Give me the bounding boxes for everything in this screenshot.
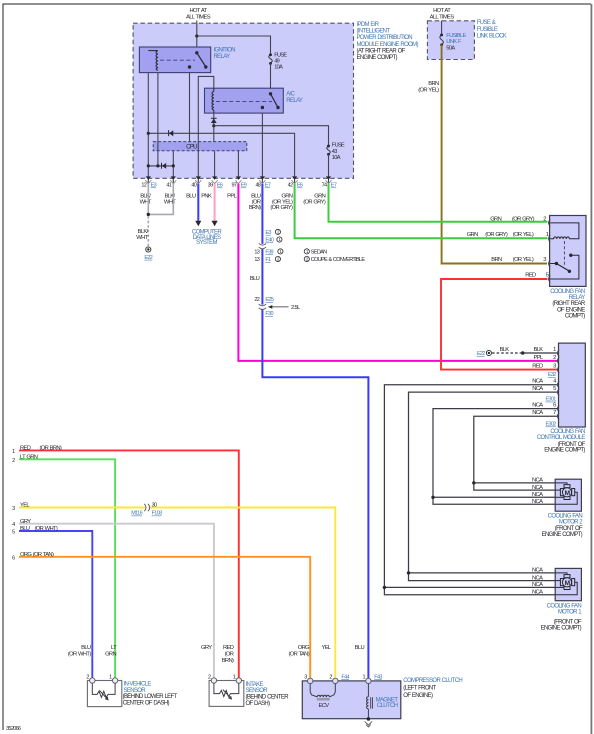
svg-text:OF DASH): OF DASH) <box>246 701 271 707</box>
compressor clutch pin bumps <box>308 678 313 683</box>
ignition relay coil <box>148 50 158 52</box>
svg-text:FUSIBLE: FUSIBLE <box>446 33 466 39</box>
wire A/C coil lead down to CPU <box>213 113 215 142</box>
svg-text:PPL: PPL <box>533 355 543 361</box>
cooling fan motor 2 box <box>555 479 581 511</box>
ECV solenoid <box>310 684 335 697</box>
svg-text:NCA: NCA <box>532 379 543 385</box>
svg-text:1: 1 <box>12 449 15 455</box>
ignition relay K1 box <box>139 47 210 73</box>
connector E25/F30 on BLU wire <box>254 297 273 317</box>
wire NCA module pin 6 to motor 2 pins 3,4 <box>433 409 557 505</box>
svg-text:GRY: GRY <box>20 519 31 525</box>
intake sensor box <box>209 681 244 707</box>
svg-text:48: 48 <box>255 183 260 189</box>
svg-text:40: 40 <box>191 183 196 189</box>
compressor clutch box <box>302 681 401 719</box>
wire NCA module pin 4 to motor 1 pins 3,4 <box>384 385 557 595</box>
ignition relay dashed link <box>160 59 195 61</box>
svg-text:WHT: WHT <box>164 199 176 205</box>
motor 1 symbol M <box>560 575 574 590</box>
svg-text:FUSE &: FUSE & <box>477 20 496 26</box>
svg-text:IGNITION: IGNITION <box>214 48 236 54</box>
svg-text:NCA: NCA <box>532 403 543 409</box>
fuse 43 10A <box>327 145 330 148</box>
wire 2 LT GRN to in-vehicle sensor pin 1 <box>19 459 115 678</box>
svg-text:HOT AT: HOT AT <box>190 8 208 14</box>
svg-text:F43: F43 <box>374 674 382 680</box>
svg-text:7: 7 <box>553 410 556 416</box>
svg-text:NCA: NCA <box>532 568 543 574</box>
relay switch pins 3 and 5 <box>550 263 556 265</box>
node HOT AT ALL TIMES (left) <box>186 8 211 20</box>
svg-text:E32: E32 <box>548 372 556 378</box>
wire U-link ignition output to A/C relay coil and pin 40 <box>198 76 214 183</box>
wire CPU to pin 39 <box>214 151 216 177</box>
svg-text:POWER DISTRIBUTION: POWER DISTRIBUTION <box>357 35 413 41</box>
svg-text:BRN: BRN <box>428 81 439 87</box>
pin 97 E9 IPDM <box>231 176 246 188</box>
svg-text:(BEHIND CENTER: (BEHIND CENTER <box>246 695 290 701</box>
cooling fan motor 1 box <box>555 568 581 600</box>
svg-text:NCA: NCA <box>532 485 543 491</box>
svg-text:1: 1 <box>109 674 112 680</box>
wire fuse 49 to A/C relay common <box>270 63 272 93</box>
svg-text:ENGINE COMPT): ENGINE COMPT) <box>357 55 398 61</box>
A/C relay dashed link <box>216 100 272 102</box>
svg-text:RELAY: RELAY <box>214 54 231 60</box>
svg-text:6: 6 <box>12 555 15 561</box>
wire PPL pin 97 to module pin 2 <box>238 184 557 361</box>
svg-text:IPDM E/R: IPDM E/R <box>357 22 380 28</box>
svg-text:RELAY: RELAY <box>569 295 586 301</box>
wire BLK module pin 1 to ground E22 <box>523 352 557 354</box>
svg-text:(OR GRY): (OR GRY) <box>303 199 326 205</box>
label A/C relay <box>286 92 303 105</box>
wire BLK/WHT pin 41 down and left <box>148 184 173 215</box>
label in-vehicle sensor <box>123 682 178 707</box>
wire bottom bus <box>148 165 173 167</box>
svg-text:2.5L: 2.5L <box>291 305 301 311</box>
pin 41 IPDM <box>166 176 176 188</box>
svg-text:97: 97 <box>231 183 236 189</box>
wire GRN pin 42 to cooling fan relay pin 1 <box>295 184 548 239</box>
svg-text:4: 4 <box>553 379 557 385</box>
svg-text:(OR BRN): (OR BRN) <box>40 446 62 452</box>
node junctions bottom bus <box>147 164 150 167</box>
intake sensor thermistor <box>214 683 239 696</box>
wire colour labels above in-vehicle sensor <box>68 645 365 664</box>
svg-text:49: 49 <box>274 59 279 65</box>
svg-text:SYSTEM: SYSTEM <box>196 240 217 246</box>
svg-text:E301: E301 <box>545 397 556 403</box>
svg-text:NCA: NCA <box>532 386 543 392</box>
svg-text:COOLING FAN: COOLING FAN <box>550 429 585 435</box>
label IPDM E/R <box>357 22 419 61</box>
svg-text:COOLING FAN: COOLING FAN <box>550 289 585 295</box>
wire BRN (OR YEL) fusible link to cooling fan relay pin 3 <box>442 45 547 264</box>
pin 12 E3 IPDM <box>141 176 156 188</box>
svg-text:INTAKE: INTAKE <box>246 682 264 688</box>
svg-text:NCA: NCA <box>532 410 543 416</box>
svg-text:M116: M116 <box>131 511 142 517</box>
wire RED relay pin 5 to module pin 3 <box>441 279 557 370</box>
svg-text:(OR YEL): (OR YEL) <box>513 257 534 263</box>
wire 3 YEL to compressor clutch pin 2 <box>19 508 335 681</box>
fuse 49 10A <box>269 53 272 56</box>
svg-text:GRN: GRN <box>490 216 501 222</box>
svg-text:RED: RED <box>20 446 31 452</box>
svg-text:OF ENGINE): OF ENGINE) <box>403 693 433 699</box>
svg-text:GRN: GRN <box>467 232 478 238</box>
svg-text:PPL: PPL <box>227 194 237 200</box>
svg-text:3: 3 <box>12 506 15 512</box>
relay coil between pins 1 and 2 <box>550 223 579 239</box>
svg-text:ORG: ORG <box>298 645 310 651</box>
svg-text:2: 2 <box>543 216 546 222</box>
svg-text:43: 43 <box>332 149 337 155</box>
svg-text:ENGINE COMPT): ENGINE COMPT) <box>542 532 583 538</box>
svg-text:3: 3 <box>553 364 556 370</box>
motor 2 internal leads <box>555 483 577 504</box>
ground E22 (left) <box>146 247 151 252</box>
svg-text:BRN: BRN <box>491 257 502 263</box>
svg-text:30: 30 <box>152 502 157 508</box>
svg-text:NCA: NCA <box>532 589 543 595</box>
wire bus A to pin 42 <box>148 133 294 183</box>
svg-text:(OR GRY): (OR GRY) <box>270 205 293 211</box>
svg-text:(LEFT FRONT: (LEFT FRONT <box>403 686 436 692</box>
wire 4 GRY to intake sensor pin 2 <box>19 524 214 679</box>
svg-text:COMPRESSOR CLUTCH: COMPRESSOR CLUTCH <box>403 678 462 684</box>
svg-text:COOLING FAN: COOLING FAN <box>547 603 582 609</box>
svg-text:13: 13 <box>254 257 259 263</box>
svg-text:6: 6 <box>553 403 556 409</box>
svg-text:E40: E40 <box>265 238 273 244</box>
svg-text:1: 1 <box>233 674 236 680</box>
svg-text:ALL TIMES: ALL TIMES <box>430 15 455 21</box>
wire hot feed to ignition relay common <box>196 21 198 53</box>
svg-text:2: 2 <box>12 458 15 464</box>
svg-text:42: 42 <box>288 183 293 189</box>
svg-text:(OR: (OR <box>225 652 234 658</box>
in-vehicle sensor thermistor <box>92 683 115 697</box>
label compressor clutch <box>403 678 462 699</box>
legend sedan / coupe <box>304 249 365 263</box>
pin 39 E6 IPDM <box>208 176 223 188</box>
svg-text:F44: F44 <box>341 674 349 680</box>
wire A/C contact output to pin 48 <box>261 108 263 184</box>
svg-text:RELAY: RELAY <box>286 98 303 104</box>
CPU box <box>153 142 247 151</box>
wire NCA module pin 5 to motor 1 pins 1,2 <box>409 392 558 580</box>
intake sensor pin bumps <box>211 678 216 683</box>
label intake sensor <box>246 682 290 707</box>
svg-text:LT GRN: LT GRN <box>20 454 38 460</box>
svg-text:12: 12 <box>141 183 146 189</box>
wire GRN pin 74 to cooling fan relay pin 2 <box>329 184 548 222</box>
cooling fan control module box <box>559 343 586 427</box>
magnet clutch coil <box>367 684 369 697</box>
svg-text:A/C: A/C <box>286 92 295 98</box>
svg-text:(OR WHT): (OR WHT) <box>35 526 58 532</box>
svg-text:LINK F: LINK F <box>446 39 462 45</box>
svg-text:COMPT): COMPT) <box>565 313 585 319</box>
svg-text:E6: E6 <box>297 183 303 189</box>
svg-text:WHT: WHT <box>140 199 152 205</box>
wire BLU pin 40 to computer data lines <box>197 184 199 221</box>
svg-text:(AT RIGHT REAR OF: (AT RIGHT REAR OF <box>357 48 406 54</box>
svg-text:39: 39 <box>208 183 213 189</box>
svg-text:E25: E25 <box>265 297 273 303</box>
svg-text:BLU: BLU <box>250 276 260 282</box>
relay dashed link <box>563 241 565 265</box>
svg-text:F103: F103 <box>152 511 163 517</box>
fuse and fusible link block box <box>427 21 474 60</box>
wire fuse 43 to pin 74 <box>328 154 330 183</box>
svg-text:F30: F30 <box>265 311 273 317</box>
svg-text:E6: E6 <box>217 183 223 189</box>
svg-text:CENTER OF DASH): CENTER OF DASH) <box>123 701 170 707</box>
label cooling fan control module <box>537 429 586 454</box>
svg-text:BLK: BLK <box>499 347 509 353</box>
svg-text:RED: RED <box>223 645 234 651</box>
node junction BLK/WHT <box>147 213 150 216</box>
svg-text:(OR TAN): (OR TAN) <box>288 652 309 658</box>
svg-text:ENGINE COMPT): ENGINE COMPT) <box>544 448 585 454</box>
wire BLU (OR BRN) pin 48 to compressor clutch pin 1 <box>262 184 368 681</box>
diode D1 on A/C coil lead <box>211 119 217 123</box>
svg-text:FUSE: FUSE <box>274 53 287 59</box>
svg-text:BRN): BRN) <box>222 658 234 664</box>
motor 2 symbol M <box>560 485 574 500</box>
svg-text:1: 1 <box>362 674 365 680</box>
wire BLK/WHT pin 12 down <box>147 184 149 215</box>
svg-text:1: 1 <box>546 232 549 238</box>
wire 1 RED (OR BRN) to intake sensor pin 1 <box>19 450 239 678</box>
svg-text:HOT AT: HOT AT <box>433 8 451 14</box>
connector break E3/E40 on BLU wire <box>259 243 266 248</box>
svg-text:(OR YEL): (OR YEL) <box>513 232 534 238</box>
svg-text:BLK: BLK <box>533 347 543 353</box>
pin 74 E7 IPDM <box>322 176 337 188</box>
svg-text:E3: E3 <box>151 183 157 189</box>
label cooling fan motor 1 <box>541 603 583 631</box>
svg-text:CPU: CPU <box>186 145 197 151</box>
diode D2 on bus A <box>169 130 173 136</box>
svg-text:PNK: PNK <box>201 194 212 200</box>
svg-text:OF ENGINE: OF ENGINE <box>557 307 585 313</box>
svg-text:FUSE: FUSE <box>332 143 345 149</box>
wire 6 ORG (OR TAN) to compressor clutch pin 3 <box>19 557 310 680</box>
diode D3 on bottom bus <box>162 163 166 169</box>
in-vehicle sensor box <box>87 681 121 707</box>
module pin labels <box>499 347 557 416</box>
svg-text:(OR GRY): (OR GRY) <box>512 216 535 222</box>
svg-text:(FRONT OF: (FRONT OF <box>555 526 583 532</box>
svg-text:3: 3 <box>304 674 307 680</box>
svg-text:(RIGHT REAR: (RIGHT REAR <box>552 301 586 307</box>
svg-text:(INTELLIGENT: (INTELLIGENT <box>357 29 391 35</box>
pin 40 IPDM <box>191 176 201 188</box>
svg-text:3: 3 <box>543 257 546 263</box>
svg-text:1: 1 <box>553 347 556 353</box>
label cooling fan motor 2 <box>542 513 584 538</box>
svg-text:SENSOR: SENSOR <box>246 688 269 694</box>
svg-text:10A: 10A <box>274 65 283 71</box>
svg-text:E22: E22 <box>144 255 152 261</box>
svg-text:YEL: YEL <box>20 503 30 509</box>
svg-text:10A: 10A <box>332 155 341 161</box>
svg-text:5: 5 <box>546 273 549 279</box>
svg-text:E302: E302 <box>545 422 556 428</box>
relay pin labels <box>467 216 549 278</box>
svg-text:E22: E22 <box>477 351 485 357</box>
svg-text:2: 2 <box>208 674 211 680</box>
svg-text:CONTROL MODULE: CONTROL MODULE <box>537 435 585 441</box>
svg-text:LINK BLOCK: LINK BLOCK <box>477 33 507 39</box>
svg-text:E9: E9 <box>241 183 247 189</box>
IPDM E/R box <box>133 23 353 178</box>
svg-text:50A: 50A <box>446 46 455 52</box>
svg-text:CLUTCH: CLUTCH <box>377 703 398 709</box>
wire BLK/WHT dashed to ground <box>147 216 149 247</box>
svg-text:F1: F1 <box>265 257 271 263</box>
svg-text:BLU: BLU <box>81 645 91 651</box>
node junction bus A <box>147 132 150 135</box>
svg-text:MOTOR 1: MOTOR 1 <box>558 610 582 616</box>
svg-text:NCA: NCA <box>532 582 543 588</box>
wire NCA module pin 7 to motor 2 pins 1,2 <box>474 416 557 490</box>
node computer data lines system <box>192 230 222 246</box>
wire ignition coil left lead to pin 12 <box>147 51 149 184</box>
svg-text:GRY: GRY <box>201 645 212 651</box>
A/C relay K2 box <box>205 88 284 113</box>
svg-text:MOTOR 2: MOTOR 2 <box>559 519 583 525</box>
svg-text:NCA: NCA <box>532 499 543 505</box>
wire colour labels below IPDM <box>140 194 326 212</box>
svg-text:22: 22 <box>254 297 259 303</box>
svg-text:COUPE & CONVERTIBLE: COUPE & CONVERTIBLE <box>311 257 366 263</box>
svg-text:2: 2 <box>553 355 556 361</box>
svg-text:BLU: BLU <box>20 526 30 532</box>
module pin entry arcs <box>557 350 559 420</box>
label ignition relay <box>214 48 236 61</box>
wire hot bus to fuse 49 <box>197 36 271 55</box>
pin 48 E7 IPDM <box>255 176 270 188</box>
svg-text:5: 5 <box>12 530 15 536</box>
node HOT AT ALL TIMES (right) <box>430 8 455 20</box>
relay pin entry arcs <box>549 220 551 283</box>
svg-text:LT: LT <box>111 645 117 651</box>
svg-text:FUSIBLE: FUSIBLE <box>477 27 498 33</box>
svg-text:WHT: WHT <box>136 235 148 241</box>
in-vehicle sensor pin bumps <box>90 678 95 683</box>
svg-text:352066: 352066 <box>6 726 21 732</box>
svg-text:NCA: NCA <box>532 478 543 484</box>
svg-text:E7: E7 <box>265 183 271 189</box>
svg-text:BLU: BLU <box>186 194 196 200</box>
wire 5 BLU (OR WHT) to in-vehicle sensor pin 2 <box>19 531 92 678</box>
node junction hot bus <box>195 34 198 37</box>
svg-text:GRN: GRN <box>105 652 116 658</box>
wire CPU to pin 97 <box>237 151 239 177</box>
label magnet clutch <box>376 698 399 709</box>
svg-text:13: 13 <box>254 249 259 255</box>
svg-text:COOLING FAN: COOLING FAN <box>548 513 583 519</box>
ground E22 (right) <box>486 350 491 355</box>
svg-text:YEL: YEL <box>321 645 331 651</box>
svg-text:(OR YEL): (OR YEL) <box>418 88 439 94</box>
connector refs E3/E40 <box>254 229 283 263</box>
svg-text:BRN): BRN) <box>249 205 261 211</box>
svg-text:ENGINE COMPT): ENGINE COMPT) <box>541 625 582 631</box>
callout arrow 2.5L <box>272 306 289 308</box>
svg-text:ORG (OR TAN): ORG (OR TAN) <box>20 552 54 558</box>
svg-text:5: 5 <box>553 386 556 392</box>
wire ignition coil bottom lead <box>157 70 159 166</box>
fusible link F 50A <box>440 33 443 36</box>
svg-text:NCA: NCA <box>532 492 543 498</box>
wire hot feed into fusible link <box>441 21 443 35</box>
svg-text:NCA: NCA <box>532 575 543 581</box>
svg-text:2: 2 <box>86 674 89 680</box>
svg-text:(BEHIND LOWER LEFT: (BEHIND LOWER LEFT <box>123 694 178 700</box>
svg-text:IN-VEHICLE: IN-VEHICLE <box>124 682 152 688</box>
wire CPU pin to pin 41 <box>172 151 174 184</box>
motor 2 NCA pin labels <box>532 478 543 505</box>
wire PNK pin 39 to computer data lines <box>214 184 216 221</box>
svg-text:RED: RED <box>532 364 543 370</box>
motor 1 NCA pin labels <box>532 568 543 596</box>
svg-text:BLU: BLU <box>355 645 365 651</box>
svg-text:SEDAN: SEDAN <box>311 249 327 255</box>
pin 42 E6 IPDM <box>288 176 303 188</box>
svg-text:2: 2 <box>329 674 332 680</box>
svg-text:RED: RED <box>525 273 536 279</box>
label cooling fan relay <box>550 289 586 319</box>
connector M116/F103 on YEL wire <box>144 504 149 511</box>
wire ignition contact output to CPU <box>189 67 191 142</box>
svg-text:ALL TIMES: ALL TIMES <box>186 15 211 21</box>
svg-text:(OR WHT): (OR WHT) <box>68 652 91 658</box>
A/C relay switch <box>269 92 272 95</box>
ignition relay switch <box>195 51 198 54</box>
svg-text:F39: F39 <box>265 249 273 255</box>
svg-text:41: 41 <box>166 183 171 189</box>
svg-text:MODULE ENGINE ROOM): MODULE ENGINE ROOM) <box>357 42 419 48</box>
svg-text:E3: E3 <box>265 230 271 236</box>
svg-text:(OR GRY): (OR GRY) <box>485 232 508 238</box>
A/C relay coil <box>212 92 214 111</box>
svg-text:4: 4 <box>12 522 15 528</box>
wire bus to fuse 43 <box>214 126 329 146</box>
cooling fan relay box <box>550 216 586 287</box>
motor 1 internal leads <box>555 573 577 595</box>
svg-text:74: 74 <box>322 183 327 189</box>
node junction A/C coil bus <box>212 124 215 127</box>
svg-text:SENSOR: SENSOR <box>124 688 147 694</box>
svg-text:E7: E7 <box>331 183 337 189</box>
ground below magnet clutch <box>367 717 371 721</box>
svg-text:ECV: ECV <box>319 703 330 709</box>
